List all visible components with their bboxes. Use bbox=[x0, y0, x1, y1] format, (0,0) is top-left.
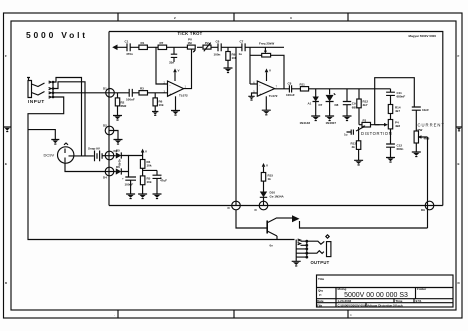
svg-text:D2: D2 bbox=[103, 124, 107, 128]
border zone ticks bottom bbox=[118, 310, 348, 318]
svg-text:D9: D9 bbox=[421, 208, 425, 212]
svg-text:Snap 9V: Snap 9V bbox=[88, 147, 100, 151]
collector arrow bbox=[277, 217, 292, 219]
ground C3 bbox=[126, 194, 135, 199]
svg-text:TICK TROT: TICK TROT bbox=[177, 31, 202, 36]
resistor R5 bbox=[140, 176, 145, 185]
potentiometer P1 bbox=[187, 45, 195, 49]
wire signal input line bbox=[114, 92, 167, 94]
svg-text:C7: C7 bbox=[240, 40, 244, 44]
output jack tip mark bbox=[326, 235, 329, 238]
svg-text:INPUT: INPUT bbox=[28, 99, 45, 104]
svg-text:DISTORTION: DISTORTION bbox=[361, 131, 392, 136]
ground R2 bbox=[113, 116, 122, 121]
svg-text:CURRENT: CURRENT bbox=[418, 123, 445, 128]
diode D8 bbox=[330, 89, 336, 95]
wire U1 power stub bbox=[174, 72, 176, 81]
svg-text:Folder: Folder bbox=[417, 287, 427, 291]
resistor R14 bbox=[388, 105, 392, 114]
svg-text:D5: D5 bbox=[116, 149, 120, 153]
input jack J1 bbox=[27, 78, 45, 98]
input jack contact pins bbox=[49, 81, 53, 98]
svg-text:P3: P3 bbox=[363, 118, 367, 122]
wire divider node bbox=[143, 168, 157, 176]
border zone ticks top bbox=[118, 13, 348, 21]
ground R9 bbox=[224, 68, 233, 73]
wire U1 ground stub bbox=[175, 96, 177, 110]
ground C12 bbox=[386, 158, 395, 163]
diode D5 bbox=[116, 152, 122, 158]
capacitor C6 bbox=[218, 43, 221, 51]
svg-text:A1: A1 bbox=[308, 102, 312, 106]
resistor R1 bbox=[139, 45, 148, 49]
svg-text:1N4007: 1N4007 bbox=[326, 121, 337, 125]
svg-text:V: V bbox=[266, 164, 268, 168]
resistor R11 bbox=[300, 87, 308, 91]
ground R5 bbox=[138, 194, 147, 199]
svg-text:1u: 1u bbox=[344, 133, 348, 137]
resistor R6 bias bbox=[154, 93, 156, 98]
svg-text:Magyar 5000V 0000: Magyar 5000V 0000 bbox=[408, 34, 436, 38]
svg-text:D1: D1 bbox=[103, 87, 107, 91]
diode D10 germanium bbox=[260, 192, 267, 198]
node D7b circle bbox=[232, 201, 241, 210]
ground D8 bbox=[325, 116, 334, 121]
svg-text:10k: 10k bbox=[147, 164, 152, 168]
svg-text:100n: 100n bbox=[214, 53, 221, 57]
svg-text:470n: 470n bbox=[126, 52, 133, 56]
svg-text:0v: 0v bbox=[270, 244, 274, 248]
svg-text:Mstng: Mstng bbox=[338, 287, 347, 291]
output contact pins bbox=[296, 241, 307, 257]
transistor Q1 bbox=[266, 221, 268, 234]
capacitor C9 bbox=[343, 89, 351, 116]
wire vcc node bbox=[129, 153, 143, 178]
svg-text:C8: C8 bbox=[288, 82, 292, 86]
output jack tip spring bbox=[307, 241, 325, 244]
svg-text:4k7: 4k7 bbox=[363, 103, 368, 107]
wire bridge top bbox=[375, 78, 415, 125]
potentiometer P4 vertical bbox=[390, 114, 392, 120]
svg-text:33n: 33n bbox=[169, 61, 174, 65]
diode D6 bbox=[116, 168, 122, 174]
wire U2 ground stub bbox=[265, 96, 267, 110]
supply arrow V drive bbox=[262, 163, 266, 167]
wire P5 wiper to node bbox=[427, 137, 429, 206]
svg-text:100uF: 100uF bbox=[125, 183, 134, 187]
svg-text:V: V bbox=[269, 69, 271, 73]
wire U2 power stub bbox=[266, 72, 268, 81]
ground C9 bbox=[343, 116, 352, 121]
wire battery to node D3 bbox=[102, 155, 116, 157]
svg-text:D4: D4 bbox=[103, 176, 107, 180]
resistor R12 bbox=[358, 89, 360, 99]
svg-text:TL072: TL072 bbox=[269, 94, 278, 98]
wire U1 output to pot wiper bbox=[184, 49, 192, 89]
wire jack sleeve ground run bbox=[28, 97, 295, 240]
supply arrow V power bbox=[141, 149, 145, 153]
wire U2 inverting input bbox=[250, 83, 257, 85]
svg-text:D7: D7 bbox=[319, 103, 323, 107]
title block bbox=[317, 275, 454, 307]
svg-text:10k: 10k bbox=[159, 103, 164, 107]
svg-text:Title: Title bbox=[318, 277, 324, 281]
svg-text:10k: 10k bbox=[147, 180, 152, 184]
border zone ticks right bbox=[456, 127, 462, 131]
svg-text:Ge 1N34A: Ge 1N34A bbox=[270, 194, 285, 198]
ground C4 bbox=[153, 194, 162, 199]
svg-text:R3: R3 bbox=[140, 87, 144, 91]
svg-text:100nF: 100nF bbox=[126, 98, 135, 102]
svg-text:F: F bbox=[458, 54, 460, 58]
svg-text:DC9V: DC9V bbox=[44, 153, 55, 158]
output connector spring marks bbox=[298, 239, 301, 245]
svg-text:V: V bbox=[178, 69, 180, 73]
bottom rail wire bbox=[109, 205, 443, 207]
svg-text:9:51: 9:51 bbox=[416, 299, 422, 303]
wire U2 noninv to ground bbox=[252, 93, 258, 96]
wire output coupling column bbox=[295, 240, 297, 258]
svg-text:5000 Volt: 5000 Volt bbox=[26, 30, 88, 40]
capacitor C13 10nF bbox=[412, 107, 421, 131]
ground node D2 bbox=[114, 140, 123, 145]
svg-text:V: V bbox=[145, 150, 147, 154]
svg-text:R7: R7 bbox=[160, 41, 164, 45]
svg-text:>: > bbox=[350, 313, 352, 317]
capacitor C11 column top bbox=[386, 89, 395, 105]
svg-text:C6: C6 bbox=[216, 40, 220, 44]
ground U1 bbox=[171, 111, 180, 116]
capacitor C7 bbox=[242, 43, 245, 51]
ground output bbox=[295, 257, 297, 261]
node D1 circle bbox=[106, 89, 115, 98]
svg-text:Freq 25kW: Freq 25kW bbox=[259, 42, 274, 46]
svg-text:1M: 1M bbox=[188, 41, 193, 45]
ground R13 bbox=[354, 160, 363, 165]
svg-text:5000V 00 00 000 S3: 5000V 00 00 000 S3 bbox=[344, 292, 408, 299]
op-amp U1A bbox=[168, 81, 184, 96]
wiper arrow P4 bbox=[375, 124, 384, 126]
top rail wire bbox=[117, 46, 284, 48]
border zone ticks left bbox=[4, 127, 12, 132]
node D2 circle bbox=[105, 126, 114, 135]
resistor R7 bbox=[158, 45, 167, 49]
svg-text:1N4148: 1N4148 bbox=[300, 121, 311, 125]
resistor R2 2M2 bbox=[117, 93, 119, 98]
dc jack J3 bbox=[57, 143, 73, 163]
wire node D2 to ground bbox=[110, 131, 119, 140]
ground D7 bbox=[311, 116, 320, 121]
svg-text:P2: P2 bbox=[205, 41, 209, 45]
wire dc jack to battery bbox=[74, 155, 94, 157]
potentiometer P3 distortion bbox=[359, 124, 362, 126]
wire collector to current node bbox=[300, 206, 428, 229]
capacitor C5 rail decouple bbox=[171, 47, 177, 62]
wire U1 inverting input feedback bbox=[156, 47, 167, 84]
node D8b circle bbox=[259, 201, 268, 210]
svg-text:R11: R11 bbox=[300, 83, 306, 87]
svg-text:C1: C1 bbox=[125, 40, 129, 44]
capacitor C8 bbox=[289, 85, 291, 92]
capacitor C1 bbox=[127, 43, 130, 51]
svg-text:R1: R1 bbox=[141, 41, 145, 45]
wire sleeve ground stub bbox=[28, 130, 55, 140]
wire mid vertical bus bbox=[235, 47, 237, 205]
node D4 circle bbox=[105, 167, 114, 176]
ground U2 noninv small bbox=[248, 96, 254, 100]
potentiometer P2 bbox=[203, 45, 211, 49]
capacitor C4 47uF bbox=[153, 170, 162, 194]
svg-text:10nF: 10nF bbox=[422, 108, 429, 112]
svg-text:File: File bbox=[317, 303, 322, 307]
capacitor C2 100n bbox=[129, 89, 132, 97]
svg-text:100nF: 100nF bbox=[286, 93, 295, 97]
svg-text:F: F bbox=[5, 54, 7, 58]
svg-text:+: + bbox=[122, 177, 124, 181]
resistor R9 shunt bbox=[227, 47, 229, 51]
ground input sleeve bbox=[51, 140, 59, 145]
wire dc jack sleeve to node D4 bbox=[65, 162, 116, 171]
svg-text:4k8: 4k8 bbox=[395, 124, 400, 128]
svg-text:680n: 680n bbox=[397, 147, 404, 151]
svg-text:D6: D6 bbox=[116, 165, 120, 169]
svg-text:1u: 1u bbox=[239, 52, 243, 56]
feedback wire loop bbox=[250, 47, 284, 89]
svg-text:C:\5000V\5000V-00A Voltage Dis: C:\5000V\5000V-00A Voltage Distortion 5V… bbox=[338, 303, 403, 307]
schematic box bbox=[109, 32, 443, 206]
svg-text:1k: 1k bbox=[268, 177, 272, 181]
ground R6 small bbox=[152, 112, 158, 116]
resistor R4 bbox=[140, 160, 145, 169]
rail left arrow bbox=[112, 45, 117, 51]
svg-text:4M8: 4M8 bbox=[424, 137, 430, 141]
svg-text:E: E bbox=[458, 162, 460, 166]
svg-text:680nF: 680nF bbox=[397, 95, 406, 99]
wire jack tip to node D1 bbox=[53, 92, 114, 94]
battery BT1 bbox=[95, 151, 103, 162]
wire jack ring to battery node bbox=[53, 82, 85, 156]
wire jack contact to battery node bbox=[53, 78, 82, 156]
resistor R3 bbox=[139, 91, 148, 95]
capacitor C3 100uF bbox=[125, 177, 136, 194]
svg-text:47uF: 47uF bbox=[160, 179, 167, 183]
op-amp U1B bbox=[257, 81, 274, 96]
ground U2 bbox=[262, 110, 271, 115]
svg-text:TL072: TL072 bbox=[179, 94, 188, 98]
wire base feed bbox=[236, 210, 267, 228]
capacitor C12 column bottom bbox=[386, 144, 395, 158]
potentiometer P5 current bbox=[414, 131, 418, 143]
capacitor C10 wiper bbox=[347, 130, 354, 135]
svg-text:OUTPUT: OUTPUT bbox=[311, 260, 330, 265]
svg-text:D8: D8 bbox=[335, 103, 339, 107]
node D9 circle bbox=[425, 201, 434, 210]
svg-text:E: E bbox=[5, 162, 7, 166]
resistor R13 bbox=[358, 127, 360, 141]
svg-text:2M2: 2M2 bbox=[121, 104, 127, 108]
svg-text:4k7: 4k7 bbox=[395, 109, 400, 113]
node D3 circle bbox=[105, 151, 114, 160]
potentiometer P3 freq bbox=[262, 53, 271, 57]
svg-text:4k: 4k bbox=[352, 145, 356, 149]
svg-text:p:: p: bbox=[319, 293, 322, 297]
output jack ring spring bbox=[307, 251, 324, 254]
resistor R15 bbox=[261, 173, 265, 182]
diode D7 bbox=[315, 89, 317, 97]
wire U2 output line bbox=[275, 88, 391, 90]
wire R5 to ground bbox=[142, 185, 144, 194]
ground P5 bbox=[412, 152, 421, 157]
output jack J2 body bbox=[327, 242, 331, 257]
wire rail junction to C5 bbox=[173, 46, 175, 48]
